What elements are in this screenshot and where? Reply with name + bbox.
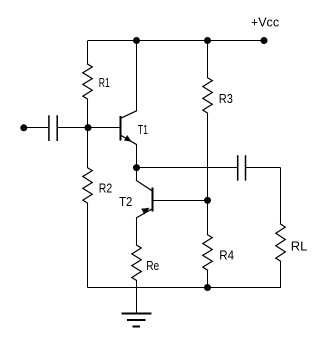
capacitor C2	[238, 155, 246, 180]
ground bars	[121, 313, 151, 315]
svg-text:T2: T2	[119, 195, 132, 209]
wire rail to R3	[207, 41, 209, 78]
transistor T2 emitter arrow	[142, 208, 150, 214]
wire emitter node to C2	[137, 167, 238, 169]
transistor T2 collector diagonal	[136, 181, 152, 192]
wire C2 to RL branch	[246, 167, 281, 169]
wire R3 to divider node	[207, 113, 209, 200]
wire C1 to base node	[58, 127, 89, 129]
node +Vcc terminal	[261, 37, 268, 44]
transistor T1 emitter diagonal	[121, 135, 137, 144]
transistor T1 collector diagonal	[121, 111, 137, 118]
resistor R3	[203, 78, 213, 113]
wire R4 to bottom rail	[207, 270, 209, 288]
svg-text:R4: R4	[219, 248, 234, 262]
resistor R4	[203, 235, 213, 270]
wire RL branch top	[280, 168, 282, 225]
wire T1 emitter down to junction	[136, 145, 138, 168]
transistor T2 emitter diagonal	[137, 209, 153, 218]
wire R2 to bottom rail	[87, 204, 89, 288]
resistor Re	[132, 245, 142, 280]
svg-text:RL: RL	[291, 239, 308, 253]
wire T2 emitter down to Re	[136, 218, 138, 245]
wire RL bottom	[280, 262, 282, 289]
wire bottom rail	[88, 287, 281, 289]
svg-text:Re: Re	[146, 259, 159, 273]
wire input to C1	[24, 127, 48, 129]
wire left vertical upper (rail to R1)	[87, 41, 89, 65]
node input terminal	[20, 124, 27, 131]
node emitter junction	[133, 164, 140, 171]
straight wires (crisp)	[24, 41, 281, 327]
wire T1 collector to top rail	[136, 41, 138, 111]
transistor T1 emitter arrow	[124, 136, 131, 142]
capacitor C1	[49, 115, 57, 141]
wire base node to T1 base	[88, 127, 120, 129]
svg-text:R2: R2	[99, 181, 112, 195]
transistor T2 base bar	[152, 188, 154, 212]
resistor R2	[83, 168, 93, 203]
wire Re to bottom rail and ground stub	[136, 281, 138, 314]
node R3 top on rail	[204, 37, 211, 44]
wire T2 collector up to emitter node	[136, 168, 138, 181]
wire divider node to R4	[207, 201, 209, 235]
transistor T1 base bar	[120, 116, 122, 141]
node base divider junction	[85, 124, 92, 131]
svg-text:R1: R1	[99, 76, 110, 90]
svg-text:R3: R3	[219, 92, 233, 106]
node divider junction	[204, 197, 211, 204]
svg-text:+Vcc: +Vcc	[251, 15, 279, 29]
node T1 collector on rail	[133, 37, 140, 44]
wire T2 base lead	[153, 200, 208, 202]
resistor RL	[276, 224, 286, 261]
wire R1 to input node	[87, 99, 89, 168]
wire top supply rail	[88, 40, 264, 42]
resistor R1	[83, 64, 93, 99]
svg-text:T1: T1	[138, 123, 148, 137]
node R4 bottom on rail	[204, 284, 211, 291]
junction and terminal dots	[20, 37, 267, 291]
diagonal / zigzag strokes	[83, 64, 285, 280]
